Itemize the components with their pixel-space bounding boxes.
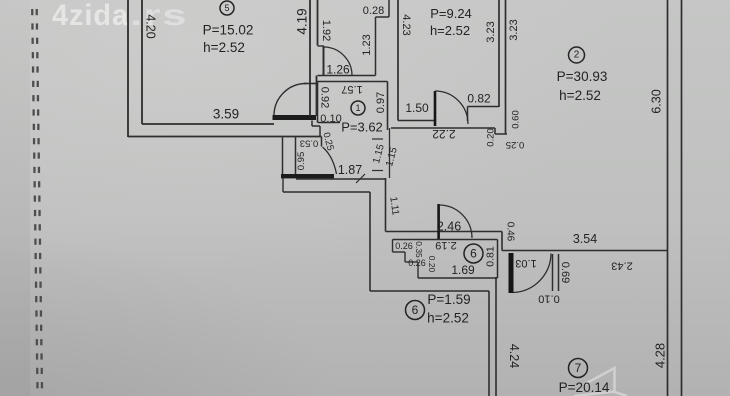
hall top wall	[386, 231, 503, 233]
corridor 6 bottom wall	[370, 290, 489, 292]
svg-text:3.54: 3.54	[573, 232, 597, 246]
svg-text:3.23: 3.23	[485, 21, 497, 42]
door 1.87 arc	[323, 147, 337, 174]
wall room5/room1 inner bottom	[316, 76, 318, 117]
svg-text:2.22: 2.22	[432, 127, 456, 141]
svg-text:4.23: 4.23	[400, 14, 412, 35]
svg-text:1.50: 1.50	[405, 101, 429, 115]
svg-text:1.87: 1.87	[338, 163, 362, 177]
room 7 left wall outer	[488, 291, 490, 396]
dim tick 1.15 a	[372, 138, 383, 140]
room number 6 corridor	[406, 301, 425, 320]
svg-text:0.10: 0.10	[320, 113, 341, 125]
svg-text:1.92: 1.92	[320, 20, 332, 41]
room 1 left wall	[317, 82, 319, 123]
room number 5	[220, 1, 234, 15]
wc box top	[393, 239, 498, 241]
svg-text:6: 6	[412, 303, 419, 317]
step down vertical	[494, 128, 496, 134]
step 0.82 vertical	[467, 107, 469, 122]
svg-text:0.46: 0.46	[505, 222, 516, 242]
right outer wall outer line	[681, 0, 683, 396]
svg-text:0.95: 0.95	[296, 152, 307, 171]
svg-text:P=1.59: P=1.59	[427, 292, 470, 307]
svg-text:0.28: 0.28	[363, 5, 384, 17]
room 1 bottom left 0.10	[318, 122, 341, 124]
door 2.46 arc	[439, 205, 472, 238]
step 0.82 ledge	[468, 106, 500, 108]
watermark 4zida.rs	[52, 0, 188, 32]
room 5 bottom wall inner	[142, 123, 274, 125]
svg-text:0.10: 0.10	[538, 293, 559, 305]
step 0.10 vertical	[311, 121, 313, 127]
svg-text:1.03: 1.03	[515, 257, 536, 269]
room 9.24 bottom sill 1.50	[398, 120, 435, 122]
room number 1	[351, 101, 365, 115]
svg-text:2.46: 2.46	[437, 220, 461, 234]
wall 3.54	[502, 250, 668, 252]
svg-text:1.23: 1.23	[361, 34, 373, 55]
room 5 door threshold	[273, 115, 317, 120]
dim slash 1.15	[356, 174, 365, 183]
wc step v1	[392, 240, 394, 253]
corridor left wall lower	[369, 192, 371, 291]
svg-text:0.53: 0.53	[300, 138, 319, 149]
svg-text:P=9.24: P=9.24	[430, 6, 472, 21]
svg-text:0.35: 0.35	[414, 241, 424, 258]
svg-text:P=20.14: P=20.14	[559, 380, 610, 395]
svg-text:4.19: 4.19	[295, 8, 310, 34]
step bottom 0.25	[495, 133, 507, 135]
svg-text:P=30.93: P=30.93	[557, 69, 608, 84]
door 1.26 leaf	[323, 46, 325, 76]
svg-text:3.23: 3.23	[508, 19, 520, 40]
door 1.03 jamb bar	[509, 253, 514, 293]
wc step h2	[405, 261, 418, 263]
svg-text:1.57: 1.57	[341, 83, 362, 95]
svg-text:h=2.52: h=2.52	[430, 23, 470, 38]
svg-text:0.81: 0.81	[485, 246, 497, 267]
watermark logo bottom right	[574, 368, 627, 396]
room 5 left wall inner	[141, 0, 143, 124]
step vertical to niche	[319, 126, 321, 137]
room number 7	[569, 359, 588, 378]
svg-text:3.59: 3.59	[213, 107, 239, 122]
soffit line 2.22	[391, 127, 495, 129]
svg-text:0.25: 0.25	[506, 139, 525, 150]
room number 2	[569, 47, 585, 63]
svg-text:0.20: 0.20	[427, 256, 437, 273]
room number 6 wc	[464, 244, 483, 263]
door 1.03 arc	[514, 254, 552, 293]
room 9.24 left wall	[397, 0, 399, 121]
corridor top line	[296, 178, 386, 180]
svg-text:0.26: 0.26	[408, 258, 426, 268]
svg-text:6.30: 6.30	[650, 89, 664, 113]
wc step v3	[417, 262, 419, 278]
svg-text:0.69: 0.69	[559, 262, 571, 283]
svg-text:4zida: 4zida	[52, 0, 129, 32]
wc step h1	[393, 251, 406, 253]
wall 9.24/room2 outer	[505, 0, 507, 134]
svg-text:0.92: 0.92	[319, 87, 331, 108]
room 5 door arc	[274, 83, 306, 115]
wc step v2	[404, 252, 406, 262]
right outer wall inner line	[667, 0, 669, 396]
svg-text:h=2.52: h=2.52	[427, 311, 469, 326]
door 1.26 arc	[324, 47, 352, 76]
niche outer left edge	[282, 138, 284, 176]
wall room5/room1 inner top	[317, 0, 319, 46]
sill line 1.26	[318, 75, 376, 77]
door 1.26 jamb tick	[318, 45, 325, 47]
wall 9.24/room2 inner	[498, 0, 500, 107]
svg-text:6: 6	[470, 247, 477, 261]
corridor bottom line	[283, 191, 370, 193]
svg-text:0.97: 0.97	[375, 92, 387, 113]
svg-text:0.60: 0.60	[511, 110, 522, 129]
room 7 left wall inner	[495, 277, 497, 396]
corridor left connector	[282, 178, 284, 192]
room 5 door leaf	[304, 83, 317, 85]
hall corner vertical	[501, 232, 503, 251]
wc box bottom	[418, 277, 498, 279]
svg-text:5: 5	[224, 3, 229, 13]
svg-text:.rs: .rs	[130, 0, 188, 32]
room 1 top wall	[318, 81, 388, 83]
step 0.10 horizontal	[312, 125, 320, 127]
svg-text:7: 7	[575, 361, 582, 375]
svg-text:2: 2	[574, 50, 580, 61]
door 2.22 arc	[435, 91, 468, 124]
dim line 1.15	[389, 128, 391, 178]
svg-text:4.24: 4.24	[507, 344, 521, 368]
room 5 left wall outer	[127, 0, 129, 137]
room 1 right wall	[387, 82, 389, 131]
svg-text:0.82: 0.82	[467, 92, 491, 106]
svg-text:2.19: 2.19	[435, 239, 456, 251]
stub 0.69 left	[552, 254, 554, 291]
svg-text:1.69: 1.69	[451, 263, 475, 277]
niche 0.28 bottom	[376, 16, 390, 18]
svg-text:2.43: 2.43	[611, 260, 632, 272]
svg-text:4.20: 4.20	[144, 14, 158, 38]
svg-text:h=2.52: h=2.52	[559, 88, 601, 103]
niche 1.23 right edge	[375, 17, 377, 76]
wc box right	[497, 240, 499, 279]
svg-text:1.26: 1.26	[326, 63, 350, 77]
svg-text:P=3.62: P=3.62	[341, 120, 383, 135]
corridor right wall upper	[385, 178, 387, 232]
dim tick 1.15 b	[372, 170, 383, 172]
niche 0.53 left edge	[295, 137, 297, 177]
niche 0.28 right edge	[388, 0, 390, 17]
door 1.87 jamb	[321, 137, 323, 147]
door 2.46 leaf	[437, 204, 440, 239]
room 5 bottom wall outer	[128, 136, 322, 138]
svg-text:0.20: 0.20	[486, 128, 497, 147]
stub 0.69 right	[558, 254, 560, 291]
wall room5/room1 outer	[309, 0, 311, 116]
door 1.87 threshold	[281, 174, 334, 178]
svg-text:P=15.02: P=15.02	[203, 23, 254, 38]
door 2.22 leaf	[434, 91, 437, 126]
svg-text:0.26: 0.26	[395, 241, 413, 251]
svg-text:1: 1	[355, 103, 360, 113]
svg-text:4.28: 4.28	[653, 343, 668, 368]
spiral binding marks	[31, 9, 43, 388]
svg-text:h=2.52: h=2.52	[203, 40, 245, 55]
